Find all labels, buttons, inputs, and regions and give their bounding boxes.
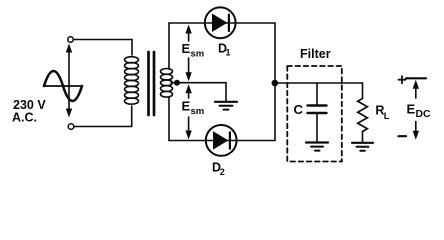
svg-text:L: L [384,111,390,122]
svg-text:C: C [294,102,304,117]
AC source double-headed arrow [66,44,72,118]
label plus [399,76,406,83]
wire bottom rail [169,140,206,142]
wire center tap [171,83,226,101]
wire output bus [275,82,363,84]
ground capacitor [306,143,328,151]
transformer primary winding [125,57,139,104]
measure arrow Esm bottom [185,84,191,139]
wire primary bottom [74,106,132,127]
node output junction [272,80,279,87]
ground center tap [215,102,237,110]
transformer secondary winding [161,69,173,98]
label Esm bottom [182,99,205,118]
terminal top [68,37,74,43]
measure arrow Esm top [185,25,191,82]
label Esm top [182,41,205,59]
capacitor C [308,83,327,141]
label minus [399,135,407,137]
filter dashed box [287,66,342,162]
ground resistor [352,143,373,151]
svg-text:sm: sm [191,106,205,117]
label D2 [212,161,225,178]
label 230 V A.C. [12,98,46,125]
wire top rail [169,22,205,24]
label EDC [407,102,432,120]
label RL [375,103,389,122]
svg-text:A.C.: A.C. [12,111,37,125]
wire top rail right [236,23,275,83]
node center tap [174,80,180,86]
wire secondary top lead [168,23,170,69]
terminal bottom [68,124,74,130]
resistor RL [358,83,368,142]
label D1 [218,41,231,57]
svg-text:1: 1 [226,48,231,58]
svg-text:sm: sm [191,48,205,59]
diode D2 [206,125,237,156]
svg-text:2: 2 [220,167,225,177]
EDC up arrow [413,80,419,98]
svg-text:E: E [182,99,191,114]
transformer core [149,52,155,115]
svg-text:E: E [182,41,191,56]
EDC top bar [406,77,426,79]
AC source sine symbol [44,71,82,101]
EDC down arrow [413,122,419,140]
wire secondary bottom lead [168,97,170,141]
wire bottom rail right [237,83,275,141]
svg-text:Filter: Filter [300,47,331,61]
wire primary top [73,40,132,56]
svg-text:DC: DC [416,109,432,120]
diode D1 [205,7,236,38]
svg-text:E: E [407,102,416,117]
